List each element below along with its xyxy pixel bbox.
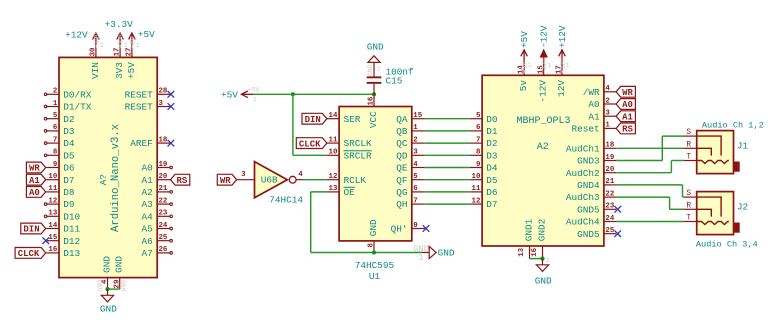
no-connect GND5 pin 23 <box>614 206 621 213</box>
pin 3 A1 (A2 right) <box>588 110 616 123</box>
wire OE to GND rail <box>311 192 422 253</box>
svg-text:+5V: +5V <box>221 89 238 100</box>
svg-text:3: 3 <box>159 100 164 108</box>
wire AudCh4 to J2 T <box>616 221 684 223</box>
svg-text:21: 21 <box>159 185 168 193</box>
svg-text:D4: D4 <box>486 163 498 174</box>
svg-text:9: 9 <box>476 161 480 169</box>
pin 1 QB (U1 right) <box>396 124 425 137</box>
svg-text:RESET: RESET <box>125 89 154 100</box>
svg-text:74HC595: 74HC595 <box>355 260 395 271</box>
svg-text:GND1: GND1 <box>523 218 534 241</box>
pin 21 A2 (Arduino right) <box>142 185 173 198</box>
svg-text:D11: D11 <box>63 224 80 235</box>
ground symbol (U1) <box>422 246 437 258</box>
pin 25 A6 (Arduino right) <box>142 234 173 247</box>
pin 15 QA (U1 right) <box>396 112 425 125</box>
global label A0 (A2) <box>616 99 635 111</box>
junction U1 GND <box>372 250 376 254</box>
pin 13 GND1 (A2 bottom) <box>518 218 535 258</box>
svg-text:D2: D2 <box>63 114 74 125</box>
svg-text:A1: A1 <box>29 176 40 186</box>
svg-text:D4: D4 <box>63 138 75 149</box>
pin T (J2) <box>684 214 697 223</box>
svg-text:16: 16 <box>48 246 57 254</box>
no-connect AREF pin 18 <box>168 140 175 147</box>
svg-text:24: 24 <box>605 215 614 223</box>
svg-text:C15: C15 <box>386 75 403 86</box>
svg-text:4: 4 <box>298 171 303 179</box>
svg-text:20: 20 <box>159 173 168 181</box>
pin 4 (U6B output) <box>296 171 303 180</box>
svg-text:SER: SER <box>344 114 361 125</box>
svg-text:3: 3 <box>605 110 610 118</box>
J2 sleeve contact <box>697 197 721 217</box>
svg-text:GND: GND <box>367 41 384 52</box>
svg-text:23: 23 <box>605 203 614 211</box>
svg-text:9: 9 <box>53 161 57 169</box>
pin S (J1) <box>684 128 697 137</box>
svg-text:25: 25 <box>159 234 168 242</box>
pin 4 GND (Arduino bottom) <box>101 256 112 289</box>
pin 20 A1 (Arduino right) <box>142 173 171 186</box>
svg-text:15: 15 <box>48 234 57 242</box>
pin 11 SRCLK (U1 left) <box>327 136 372 149</box>
pin 12 D9 (Arduino left) <box>44 197 74 210</box>
pin 16 GND2 (A2 bottom) <box>531 219 548 259</box>
connector J2 audio jack <box>697 192 734 235</box>
svg-text:12: 12 <box>329 173 338 181</box>
svg-text:24: 24 <box>159 222 168 230</box>
svg-text:14: 14 <box>48 222 57 230</box>
svg-text:5v: 5v <box>518 80 529 92</box>
pin 24 A5 (Arduino right) <box>142 222 173 235</box>
pin 18 AudCh1 (A2 right) <box>566 142 616 155</box>
pin 5 QF (U1 right) <box>396 173 425 186</box>
pin 1 D1/TX (Arduino left) <box>44 100 92 113</box>
hidden pin text +12V <box>559 58 569 74</box>
svg-text:20: 20 <box>605 166 614 174</box>
op-amp U6B 74HC14 inverter <box>255 162 288 198</box>
wire GND pins <box>108 288 120 290</box>
pin R (J2) <box>684 201 697 210</box>
pin 17 3V3 (Arduino top) <box>114 45 125 79</box>
svg-text:10: 10 <box>329 149 338 157</box>
svg-text:GND: GND <box>121 280 128 292</box>
global label DIN (U1) <box>302 113 327 125</box>
power symbol +12V <box>93 33 100 45</box>
pin 22 AudCh3 (A2 right) <box>566 190 616 203</box>
pin 10 D7 (Arduino left) <box>46 173 74 186</box>
wire QD to D3 <box>425 154 470 156</box>
svg-text:T: T <box>686 153 691 162</box>
svg-text:11: 11 <box>48 185 57 193</box>
svg-text:WR: WR <box>220 176 231 186</box>
no-connect QH' <box>423 225 430 232</box>
svg-text:13: 13 <box>48 210 57 218</box>
svg-text:18: 18 <box>159 136 168 144</box>
svg-text:1: 1 <box>566 62 570 69</box>
svg-text:CLCK: CLCK <box>18 249 40 259</box>
IC U1 74HC595 <box>339 107 412 241</box>
svg-text:RESET: RESET <box>125 102 154 113</box>
svg-text:S: S <box>686 128 691 137</box>
power symbol +12V (A2) <box>559 50 566 63</box>
svg-text:D5: D5 <box>63 150 75 161</box>
svg-text:D0: D0 <box>486 114 498 125</box>
svg-text:8: 8 <box>476 149 481 157</box>
wire U6B out to RCLK <box>303 179 327 181</box>
pin 2 D0/RX (Arduino left) <box>44 88 92 101</box>
pin 11 D6 (A2 left) <box>470 185 498 198</box>
svg-text:S: S <box>686 189 691 198</box>
svg-text:VIN: VIN <box>90 62 101 79</box>
svg-text:+12V: +12V <box>65 30 88 41</box>
global label CLCK <box>15 248 46 260</box>
pin 14 5v (A2 top) <box>518 63 529 91</box>
wire AudCh2 to J1 T <box>616 161 684 173</box>
pin 20 AudCh2 (A2 right) <box>566 166 616 179</box>
ground symbol (A2) <box>536 259 548 272</box>
pin 13 D10 (Arduino left) <box>44 210 80 223</box>
svg-text:AudCh3: AudCh3 <box>566 192 600 203</box>
svg-text:18: 18 <box>605 142 614 150</box>
wire AudCh3 to J2 R <box>616 197 684 209</box>
svg-text:1: 1 <box>547 62 551 69</box>
svg-text:GND5: GND5 <box>577 229 600 240</box>
svg-text:Reset: Reset <box>571 124 599 135</box>
svg-text:12V: 12V <box>556 80 567 97</box>
pin 23 GND5 (A2 right) <box>577 203 616 216</box>
svg-text:J2: J2 <box>737 202 748 213</box>
J2 ring contact <box>697 209 712 216</box>
pin 1 Reset (A2 right) <box>571 122 616 135</box>
svg-text:7: 7 <box>53 136 57 144</box>
pin 22 A3 (Arduino right) <box>142 197 173 210</box>
global label A1 (A2) <box>616 111 635 123</box>
svg-text:QC: QC <box>396 138 408 149</box>
svg-text:+3.3V: +3.3V <box>105 19 134 30</box>
J1 tip contact <box>697 161 729 164</box>
hidden pin text +5V <box>129 36 139 48</box>
wire QG to D6 <box>425 191 470 193</box>
svg-text:AREF: AREF <box>130 138 153 149</box>
svg-text:9: 9 <box>413 222 417 230</box>
svg-text:19: 19 <box>159 161 168 169</box>
pin 12 D7 (A2 left) <box>470 197 498 210</box>
svg-text:QA: QA <box>396 114 408 125</box>
pin 6 D1 (A2 left) <box>470 124 498 137</box>
svg-text:D6: D6 <box>63 163 75 174</box>
svg-text:D6: D6 <box>486 187 498 198</box>
svg-text:GND: GND <box>101 256 112 273</box>
svg-text:GND: GND <box>114 256 125 273</box>
ground symbol (C15) <box>368 56 380 63</box>
svg-text:19: 19 <box>605 154 614 162</box>
svg-text:25: 25 <box>605 227 614 235</box>
svg-text:1: 1 <box>413 124 418 132</box>
global label DIN <box>21 223 46 235</box>
svg-text:16: 16 <box>368 96 376 105</box>
svg-text:8: 8 <box>368 242 376 247</box>
pin 21 GND4 (A2 right) <box>577 178 616 191</box>
svg-text:WR: WR <box>29 164 40 174</box>
power symbol +5V <box>129 33 136 45</box>
wire GND4 to J2 S <box>616 185 684 197</box>
svg-text:3: 3 <box>413 149 418 157</box>
svg-text:D0/RX: D0/RX <box>63 89 92 100</box>
pin 14 D11 (Arduino left) <box>46 222 80 235</box>
svg-text:DIN: DIN <box>305 115 321 125</box>
svg-text:A?: A? <box>98 174 109 185</box>
svg-text:D9: D9 <box>63 199 74 210</box>
svg-text:A3: A3 <box>142 199 154 210</box>
pin 3 RESET (Arduino right) <box>125 100 171 113</box>
svg-text:U6B: U6B <box>261 175 278 186</box>
svg-text:D1/TX: D1/TX <box>63 102 92 113</box>
pin 6 D3 (Arduino left) <box>44 124 75 137</box>
svg-text:10: 10 <box>48 173 57 181</box>
connector J1 audio jack <box>697 131 734 174</box>
global label WR (U6B input) <box>217 174 236 186</box>
no-connect RESET pin 28 <box>168 91 175 98</box>
svg-text:4: 4 <box>413 161 418 169</box>
svg-text:A6: A6 <box>142 236 154 247</box>
svg-text:12: 12 <box>472 197 481 205</box>
svg-text:D13: D13 <box>63 248 80 259</box>
J1 jack body contact <box>734 162 740 172</box>
svg-text:2: 2 <box>605 97 609 105</box>
power symbol +5V (rail) <box>241 91 253 98</box>
pin 23 A4 (Arduino right) <box>142 210 173 223</box>
pin 2 QC (U1 right) <box>396 136 425 149</box>
pin 28 RESET (Arduino right) <box>125 88 171 101</box>
pin 9 D6 (Arduino left) <box>46 161 75 174</box>
svg-text:1: 1 <box>546 257 550 264</box>
pin 3 QD (U1 right) <box>396 149 425 162</box>
svg-text:A1: A1 <box>622 112 633 122</box>
svg-text:21: 21 <box>605 178 614 186</box>
svg-text:6: 6 <box>413 185 418 193</box>
svg-text:GND4: GND4 <box>577 180 600 191</box>
svg-text:QH: QH <box>396 199 407 210</box>
svg-text:12: 12 <box>48 197 57 205</box>
wire QA to D0 <box>425 118 470 120</box>
svg-text:A0: A0 <box>142 163 154 174</box>
pin 19 GND3 (A2 right) <box>577 154 616 167</box>
pin S (J2) <box>684 189 697 198</box>
pin 8 D3 (A2 left) <box>470 149 498 162</box>
pin 13 OE (U1 left) <box>327 185 355 198</box>
svg-text:GND5: GND5 <box>577 204 600 215</box>
pin 25 GND5 (A2 right) <box>577 227 616 240</box>
svg-text:A7: A7 <box>142 248 153 259</box>
svg-text:13: 13 <box>518 247 526 256</box>
svg-text:14: 14 <box>329 112 338 120</box>
pin 9 D4 (A2 left) <box>470 161 498 174</box>
pin 4 QE (U1 right) <box>396 161 425 174</box>
svg-text:A1: A1 <box>588 111 600 122</box>
global label WR <box>26 162 45 174</box>
svg-text:7: 7 <box>476 136 480 144</box>
svg-text:+5V: +5V <box>519 31 530 48</box>
svg-text:GND: GND <box>367 64 374 76</box>
pin 27 +5V (Arduino top) <box>126 45 137 79</box>
svg-text:D8: D8 <box>63 187 75 198</box>
J1 sleeve contact <box>697 136 721 156</box>
svg-text:5: 5 <box>53 112 58 120</box>
pin 5 D0 (A2 left) <box>470 112 498 125</box>
svg-text:1: 1 <box>253 96 257 103</box>
svg-text:1: 1 <box>53 100 58 108</box>
svg-text:QD: QD <box>396 150 408 161</box>
svg-text:GND: GND <box>100 304 117 315</box>
ground symbol (Arduino) <box>101 289 113 302</box>
pin 16 VCC (U1 top) <box>368 94 379 128</box>
pin 6 QG (U1 right) <box>396 185 425 198</box>
pin T (J1) <box>684 153 697 162</box>
svg-text:GND: GND <box>535 276 552 287</box>
hidden pin text +5V <box>522 62 532 74</box>
power symbol -12V (A2) <box>540 50 547 63</box>
svg-text:2: 2 <box>53 88 57 96</box>
J2 jack body contact <box>734 223 740 233</box>
pin 5 D2 (Arduino left) <box>44 112 74 125</box>
pin 10 SRCLR (U1 left) <box>327 149 372 162</box>
wire QF to D5 <box>425 179 470 181</box>
svg-text:+5V: +5V <box>138 29 155 40</box>
svg-text:10: 10 <box>472 173 481 181</box>
svg-text:A0: A0 <box>588 99 600 110</box>
svg-text:T: T <box>686 214 691 223</box>
pin 11 D8 (Arduino left) <box>46 185 75 198</box>
pin 8 D5 (Arduino left) <box>44 149 75 162</box>
svg-text:D10: D10 <box>63 211 80 222</box>
svg-text:22: 22 <box>605 190 614 198</box>
wire +5V rail <box>254 93 374 95</box>
hidden pin text +12V <box>93 32 103 48</box>
pin 18 AREF (Arduino right) <box>130 136 170 149</box>
svg-text:VCC: VCC <box>368 111 379 128</box>
svg-text:A0: A0 <box>29 188 40 198</box>
svg-text:3V3: 3V3 <box>114 62 125 79</box>
svg-text:A0: A0 <box>622 100 633 110</box>
svg-text:6: 6 <box>53 124 58 132</box>
svg-text:D5: D5 <box>486 175 498 186</box>
wire QH to D7 <box>425 203 470 205</box>
no-connect GND5 pin 25 <box>614 230 621 237</box>
pin 10 D5 (A2 left) <box>470 173 498 186</box>
svg-text:1: 1 <box>418 253 423 263</box>
pin 19 A0 (Arduino right) <box>142 161 173 174</box>
pin 15 -12V (A2 top) <box>537 63 548 103</box>
module A2 MBHP_OPL3 <box>482 75 604 246</box>
J2 tip contact <box>697 222 729 225</box>
svg-text:D3: D3 <box>63 126 75 137</box>
svg-text:+12V: +12V <box>557 25 568 48</box>
svg-text:11: 11 <box>472 185 481 193</box>
svg-text:D7: D7 <box>486 199 497 210</box>
pin 29 GND (Arduino bottom) <box>113 256 124 289</box>
svg-text:SRCLK: SRCLK <box>344 138 373 149</box>
global label A1 <box>26 174 45 186</box>
junction A2 GND <box>540 257 544 261</box>
svg-text:AudCh1: AudCh1 <box>566 143 600 154</box>
svg-text:4: 4 <box>605 85 610 93</box>
svg-text:R: R <box>686 140 691 149</box>
wire +5V to SRCLR <box>293 94 327 155</box>
svg-text:11: 11 <box>329 136 338 144</box>
svg-text:16: 16 <box>531 247 539 256</box>
svg-text:26: 26 <box>159 246 168 254</box>
svg-text:1: 1 <box>136 42 140 49</box>
svg-text:AudCh2: AudCh2 <box>566 168 600 179</box>
pin 30 VIN (Arduino top) <box>90 45 101 79</box>
svg-text:OE: OE <box>344 187 356 198</box>
power symbol +3.3V <box>117 33 124 45</box>
svg-text:Audio Ch 3,4: Audio Ch 3,4 <box>696 240 758 250</box>
pin 16 D13 (Arduino left) <box>46 246 80 259</box>
pin 9 QH' (U1 right) <box>391 222 425 235</box>
svg-text:22: 22 <box>159 197 168 205</box>
global label RS <box>171 174 190 186</box>
svg-text:DIN: DIN <box>23 225 39 235</box>
svg-text:D1: D1 <box>486 126 498 137</box>
svg-text:GND: GND <box>438 247 455 258</box>
svg-text:RS: RS <box>177 176 188 186</box>
svg-text:A2: A2 <box>537 142 549 153</box>
wire GND3 to J1 S <box>616 136 684 160</box>
junction +5V/SRCLR <box>291 92 295 96</box>
pin 7 QH (U1 right) <box>396 197 425 210</box>
module A? Arduino_Nano_v3.x <box>59 57 157 277</box>
svg-text:QB: QB <box>396 126 408 137</box>
svg-text:J1: J1 <box>737 141 749 152</box>
svg-text:SRCLR: SRCLR <box>344 150 373 161</box>
pin 26 A7 (Arduino right) <box>142 246 173 259</box>
pin 24 AudCh4 (A2 right) <box>566 215 616 228</box>
svg-text:-12V: -12V <box>539 25 550 48</box>
svg-text:1: 1 <box>100 42 104 49</box>
svg-text:QF: QF <box>396 175 407 186</box>
svg-text:Audio Ch 1,2: Audio Ch 1,2 <box>702 120 764 130</box>
svg-text:13: 13 <box>329 185 338 193</box>
hidden pin text -12V <box>541 58 551 74</box>
pin R (J1) <box>684 140 697 149</box>
svg-text:QE: QE <box>396 163 408 174</box>
wire AudCh1 to J1 R <box>616 147 684 149</box>
svg-text:D12: D12 <box>63 236 80 247</box>
wire QE to D4 <box>425 167 470 169</box>
svg-text:AudCh4: AudCh4 <box>566 217 600 228</box>
no-connect RESET pin 3 <box>168 103 175 110</box>
global label A0 <box>26 187 45 199</box>
wire A2 GND pins <box>530 258 543 260</box>
pin 17 12V (A2 top) <box>556 63 567 97</box>
svg-text:2: 2 <box>413 136 417 144</box>
power symbol +5V (A2) <box>521 50 528 63</box>
svg-text:5: 5 <box>413 173 418 181</box>
wire QB to D1 <box>425 130 470 132</box>
capacitor C15 <box>367 62 382 94</box>
svg-text:QG: QG <box>396 187 408 198</box>
svg-text:MBHP_OPL3: MBHP_OPL3 <box>516 116 570 127</box>
pin 4 /WR (A2 right) <box>583 85 616 98</box>
pin 3 (U6B input) <box>237 171 255 180</box>
svg-text:A5: A5 <box>142 224 154 235</box>
pin 2 A0 (A2 right) <box>588 97 616 110</box>
svg-text:6: 6 <box>476 124 481 132</box>
